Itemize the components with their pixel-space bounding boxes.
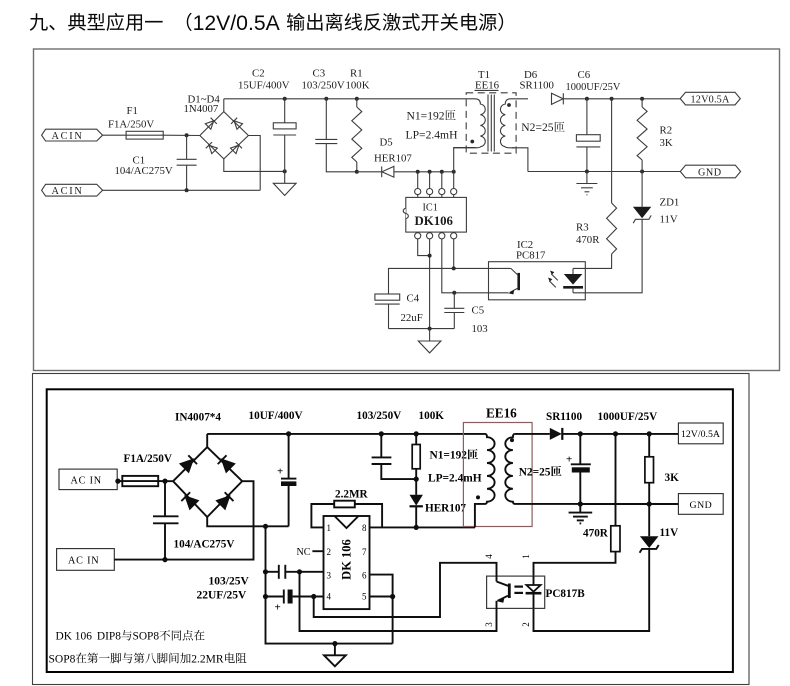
node 470R top: [613, 431, 618, 436]
IC1 top pin 8 wire: [417, 172, 419, 189]
wire D6 to output tag: [563, 98, 680, 100]
GND rail wire: [528, 171, 680, 173]
svg-text:C5: C5: [472, 305, 485, 317]
EE16 primary polarity dot: [476, 495, 480, 499]
node ground symbol tap: [332, 641, 337, 646]
diode HER107 (bottom): [410, 479, 467, 527]
net tag ACIN (line): [42, 129, 103, 142]
port box AC IN (line): [59, 469, 117, 490]
svg-text:HER107: HER107: [374, 153, 412, 165]
svg-text:C6: C6: [578, 69, 591, 81]
node R2 bottom: [640, 170, 644, 174]
IC1 bottom pin 4 circle: [451, 233, 457, 239]
earth ground (secondary): [576, 172, 597, 195]
svg-text:104/AC275V: 104/AC275V: [174, 539, 235, 551]
svg-text:SR1100: SR1100: [546, 411, 582, 423]
opto pin3 route to DK pin3: [300, 572, 497, 631]
IC1 bottom pin 1 stub: [417, 231, 419, 234]
opto coupling marks: [514, 587, 523, 593]
diode D5 HER107: [374, 136, 412, 177]
svg-text:4: 4: [484, 554, 494, 559]
feedback wire C4 to IC2: [389, 268, 511, 294]
wire ACIN line to fuse: [103, 134, 127, 136]
svg-text:470R: 470R: [583, 528, 609, 540]
svg-text:470R: 470R: [576, 234, 600, 246]
EE16 secondary winding: [505, 434, 580, 504]
node HER107 cathode: [414, 525, 419, 530]
node R1 bottom junction: [355, 170, 359, 174]
svg-text:AC IN: AC IN: [68, 556, 99, 567]
svg-text:R1: R1: [350, 68, 363, 80]
capacitor C6 1000UF/25V: [566, 69, 621, 172]
svg-text:ACIN: ACIN: [52, 186, 84, 197]
diode bridge bottom-left (bottom schem): [181, 492, 198, 509]
svg-text:SOP8: SOP8: [49, 653, 76, 665]
svg-text:103/250V: 103/250V: [302, 80, 345, 92]
svg-text:D5: D5: [380, 136, 393, 148]
svg-text:12V0.5A: 12V0.5A: [691, 95, 730, 106]
capacitor 22UF/25V (bottom): [197, 589, 324, 613]
svg-text:DK 106: DK 106: [56, 631, 93, 643]
svg-text:1N4007: 1N4007: [184, 103, 219, 115]
wire IC1 pin4 to feedback line: [453, 239, 455, 269]
svg-text:100K: 100K: [419, 410, 445, 422]
diode bridge top-right (bottom schem): [218, 455, 235, 472]
op IC1 DK106 box: [403, 197, 466, 232]
ground (bottom schematic): [324, 644, 346, 667]
opto pin4 route from DK pin4: [314, 563, 497, 617]
node R3 top: [610, 97, 614, 101]
wire NC to pin2: [312, 550, 323, 552]
resistor 100K (box): [412, 410, 444, 479]
wire SR1100 to output: [562, 433, 678, 435]
node 3K top: [647, 431, 652, 436]
svg-text:DK 106: DK 106: [340, 539, 354, 580]
svg-text:GND: GND: [698, 167, 722, 178]
node drain pin8: [416, 170, 420, 174]
svg-text:EE16: EE16: [486, 406, 517, 421]
node AC line junction: [185, 133, 189, 137]
node 100K top: [414, 431, 419, 436]
svg-text:GND: GND: [690, 500, 713, 511]
IC2 phototransistor: [508, 268, 518, 294]
svg-text:N2=25: N2=25: [521, 121, 554, 134]
svg-text:1: 1: [326, 523, 331, 533]
diode D1 (bridge top-left): [205, 118, 217, 130]
svg-text:11V: 11V: [660, 527, 679, 539]
svg-text:4: 4: [326, 592, 331, 602]
svg-text:LP=2.4mH: LP=2.4mH: [406, 129, 459, 142]
node R2 top: [640, 97, 644, 101]
net tag 12V0.5A output: [680, 92, 740, 105]
diode SR1100: [546, 411, 582, 440]
T1 primary polarity dot: [470, 140, 474, 144]
node AC neutral junction: [185, 188, 189, 192]
IC1 top pin 8 circle: [415, 189, 421, 195]
svg-text:3K: 3K: [665, 472, 680, 484]
bottom inner frame: [47, 389, 733, 672]
svg-text:2.2MR: 2.2MR: [335, 489, 369, 501]
svg-text:EE16: EE16: [475, 80, 500, 92]
resistor 3K (box): [645, 434, 679, 504]
svg-text:3K: 3K: [660, 137, 673, 149]
svg-text:+: +: [566, 453, 572, 465]
port box AC IN (neutral): [57, 549, 115, 571]
IC1 bottom pin 3 circle: [439, 233, 445, 239]
svg-text:SR1100: SR1100: [520, 80, 554, 92]
svg-text:IC1: IC1: [423, 203, 438, 214]
capacitor C3 103/250V: [302, 68, 357, 172]
node 104 bottom: [162, 557, 167, 562]
IC1 top pin 7 wire: [429, 172, 431, 189]
node 1000UF top: [578, 431, 583, 436]
node C6 top: [585, 97, 589, 101]
node 103/250V top: [379, 431, 384, 436]
svg-text:15UF/400V: 15UF/400V: [238, 80, 290, 92]
capacitor C5 103: [444, 293, 487, 335]
T1 primary winding: [454, 99, 486, 148]
analog ground rail wire: [389, 328, 455, 330]
node R1 top junction: [355, 97, 359, 101]
wire fuse to bridge: [163, 134, 200, 136]
svg-text:103/25V: 103/25V: [209, 576, 250, 588]
IC1 top pin 7 stub: [429, 195, 431, 198]
wire zener to opto pin2: [534, 549, 650, 631]
wire pin1 to 2.2MR: [311, 504, 334, 527]
capacitor C1 104/AC275V: [115, 135, 197, 190]
diode D6 SR1100: [520, 69, 564, 104]
IC1 bottom pin 2 stub: [429, 231, 431, 234]
node cap103/25V tap: [263, 569, 268, 574]
emitter wire to IC2: [454, 292, 508, 294]
svg-text:AC IN: AC IN: [71, 475, 102, 486]
IC1 top pin 6 circle: [439, 189, 445, 195]
capacitor C4 22uF: [375, 292, 423, 328]
svg-text:3: 3: [484, 622, 494, 627]
capacitor 1000UF/25V (bottom): [566, 411, 657, 504]
node AC1: [115, 479, 120, 484]
node drain pin7: [428, 170, 432, 174]
svg-text:HER107: HER107: [425, 503, 466, 515]
resistor R1 100K: [346, 68, 370, 172]
capacitor 103/250V (snubber bottom): [357, 410, 417, 479]
IC1 bottom pin 1 circle: [415, 233, 421, 239]
wire AC1 to fuse: [117, 480, 122, 482]
zener diode 11V (bottom): [640, 504, 679, 553]
opto PC817B box: [487, 576, 586, 608]
resistor R2 3K: [637, 99, 673, 172]
earth ground (bottom schem): [569, 504, 593, 523]
svg-text:PC817: PC817: [516, 250, 546, 262]
wire DK pin5 stub: [370, 596, 393, 598]
svg-text:F1A/250V: F1A/250V: [108, 118, 154, 130]
wire R3 column from 12V rail: [611, 99, 613, 203]
zener diode ZD1 11V: [573, 172, 679, 293]
title 九、典型应用一（12V/0.5A 输出离线反激式开关电源）: [30, 12, 504, 35]
opto IC2 PC817 box: [489, 239, 586, 300]
node ground rail: [428, 327, 432, 331]
svg-text:7: 7: [362, 547, 367, 557]
resistor 2.2MR: [334, 489, 368, 508]
EE16 secondary polarity dot: [510, 438, 514, 442]
svg-text:100K: 100K: [346, 80, 370, 92]
svg-text:1: 1: [521, 554, 531, 559]
svg-text:1000UF/25V: 1000UF/25V: [566, 82, 621, 93]
svg-text:8: 8: [362, 523, 367, 533]
secondary GND rail (bottom): [580, 503, 678, 505]
diode D3 (bridge bottom-left): [206, 142, 218, 154]
fuse F1: [108, 105, 163, 139]
wire 470R to opto pin1: [534, 552, 616, 577]
node pin4 feedback: [452, 266, 456, 270]
EE16 primary winding: [475, 434, 495, 528]
svg-text:ZD1: ZD1: [660, 196, 680, 208]
node C5 top: [452, 291, 456, 295]
T1 core: [488, 95, 494, 152]
net tag GND: [680, 165, 740, 178]
opto LED (bottom): [526, 576, 542, 608]
wire secondary top to SR1100: [515, 433, 550, 435]
wire snubber to D5: [357, 171, 382, 173]
svg-text:R2: R2: [660, 124, 673, 136]
resistor 470R (box): [583, 434, 620, 552]
IC1 bottom pin 4 stub: [453, 231, 455, 234]
wire IC1 pin1 to pin2: [418, 239, 430, 256]
T1 secondary polarity dot: [507, 103, 511, 107]
node 1000UF bottom: [578, 501, 583, 506]
IC2 light arrows: [548, 271, 558, 288]
IC1 top pin 6 stub: [441, 195, 443, 198]
wire pin8 drain: [370, 526, 476, 528]
IC1 bottom pin 3 stub: [441, 231, 443, 234]
capacitor 104/AC275V (bottom): [153, 481, 234, 559]
svg-text:+: +: [275, 601, 281, 613]
svg-text:N1=192: N1=192: [407, 109, 445, 122]
fuse F1A/250V (bottom): [122, 453, 172, 486]
IC1 top pin 8 stub: [417, 195, 419, 198]
svg-text:PC817B: PC817B: [546, 588, 586, 600]
port box 12V/0.5A: [678, 423, 723, 444]
diode D4 (bridge bottom-right): [230, 142, 242, 154]
wire DK pin6 ground route: [370, 575, 393, 644]
port box GND (bottom): [678, 494, 723, 515]
node drain pin5: [452, 170, 456, 174]
svg-text:12V/0.5A: 12V/0.5A: [193, 12, 281, 35]
capacitor 10UF/400V: [249, 410, 303, 526]
T1 secondary winding: [500, 99, 528, 148]
wire bridge- to C2: [224, 159, 285, 172]
node cap22UF tap: [263, 594, 268, 599]
node pin5-pin6: [390, 594, 395, 599]
svg-text:2.2MR: 2.2MR: [191, 653, 224, 665]
bridge rectifier D1~D4 1N4007: [184, 94, 249, 159]
node pin4 net: [311, 594, 316, 599]
IC1 top pin 7 circle: [427, 189, 433, 195]
svg-text:6: 6: [362, 570, 367, 580]
node C2 top junction: [283, 97, 287, 101]
wire drain to transformer primary: [454, 148, 476, 172]
wire fuse to bridge (bottom): [158, 480, 173, 482]
node fuse out: [162, 479, 167, 484]
svg-text:N2=25: N2=25: [519, 466, 551, 478]
IC1 bottom pin 2 circle: [427, 233, 433, 239]
svg-text:ACIN: ACIN: [52, 131, 84, 142]
svg-text:22uF: 22uF: [401, 312, 423, 324]
svg-text:DIP8: DIP8: [97, 631, 121, 643]
svg-text:LP=2.4mH: LP=2.4mH: [428, 472, 482, 484]
node pin3 net: [297, 569, 302, 574]
svg-text:103: 103: [472, 323, 488, 335]
IC1 top pin 6 wire: [441, 172, 443, 189]
opto transistor (bottom): [497, 576, 510, 608]
svg-text:DK106: DK106: [415, 214, 454, 228]
node pin1-pin2 join: [428, 254, 432, 258]
top schematic frame: [34, 49, 780, 371]
wire bridge- down (bottom): [207, 517, 288, 526]
capacitor 103/25V (bottom): [209, 565, 324, 588]
node 10UF top: [286, 431, 291, 436]
IC1 top pin 5 circle: [451, 189, 457, 195]
wire ACIN neutral: [103, 189, 261, 191]
node C3 top junction: [324, 97, 328, 101]
diode bridge bottom-right (bottom schem): [217, 492, 234, 509]
wire IC1 pin3 to emitter line: [442, 239, 455, 293]
svg-text:SOP8: SOP8: [133, 631, 160, 643]
primary ground drop: [266, 526, 393, 643]
wire IC1 pin2 ground drop: [429, 239, 431, 329]
net tag ACIN (neutral): [42, 184, 103, 197]
node C2 bottom junction: [283, 169, 287, 173]
IC2 LED: [563, 268, 583, 292]
HV rail wire: [224, 98, 475, 100]
svg-text:2: 2: [521, 622, 531, 627]
capacitor C2 15UF/400V: [238, 68, 296, 172]
svg-text:3: 3: [326, 570, 331, 580]
ground (IC1): [418, 329, 441, 353]
drain rail wire: [394, 171, 454, 173]
svg-text:22UF/25V: 22UF/25V: [197, 589, 248, 601]
svg-text:N1=192: N1=192: [430, 450, 468, 462]
svg-text:1000UF/25V: 1000UF/25V: [598, 411, 658, 423]
svg-text:5: 5: [362, 592, 367, 602]
wire bridge+ up (bottom): [206, 434, 208, 447]
diode bridge top-left (bottom schem): [180, 455, 197, 472]
bridge rectifier IN4007*4: [173, 411, 242, 517]
node snubber junction: [414, 477, 419, 482]
svg-text:C4: C4: [407, 292, 420, 304]
HV rail (bottom): [207, 433, 485, 435]
svg-text:R3: R3: [576, 222, 589, 234]
svg-text:104/AC275V: 104/AC275V: [115, 165, 173, 177]
transformer T1 EE16 (dashed box): [466, 69, 516, 153]
IC1 top pin 5 stub: [453, 195, 455, 198]
node drain pin6: [440, 170, 444, 174]
svg-text:103/250V: 103/250V: [357, 410, 402, 422]
ground (primary): [273, 171, 296, 195]
transformer EE16 box (red): [463, 406, 532, 527]
node primary return: [263, 524, 268, 529]
node zener top: [647, 501, 652, 506]
wire bridge AC2 drop: [248, 136, 260, 191]
svg-text:12V/0.5A: 12V/0.5A: [681, 429, 720, 440]
IC1 top pin 5 wire: [453, 172, 455, 189]
node C6 bottom: [585, 170, 589, 174]
svg-text:+: +: [277, 466, 283, 478]
svg-text:F1A/250V: F1A/250V: [124, 453, 172, 465]
op IC DK 106 (DIP8) box: [324, 516, 370, 609]
wire bridge+ to HV rail: [223, 99, 225, 112]
svg-text:10UF/400V: 10UF/400V: [249, 410, 303, 422]
svg-text:F1: F1: [127, 105, 138, 117]
diode D2 (bridge top-right): [231, 118, 243, 130]
svg-text:IN4007*4: IN4007*4: [175, 411, 221, 423]
wire T1 secondary bottom to GND rail: [512, 148, 528, 172]
wire AC2 to bridge: [114, 481, 253, 559]
svg-text:C3: C3: [313, 68, 326, 80]
svg-text:NC: NC: [297, 547, 311, 558]
svg-text:C2: C2: [252, 68, 265, 80]
svg-text:11V: 11V: [660, 213, 678, 225]
wire 2.2MR to pin8 net: [355, 504, 382, 527]
svg-text:2: 2: [326, 547, 331, 557]
resistor R3 470R: [573, 203, 617, 268]
bottom outer frame: [33, 374, 750, 685]
